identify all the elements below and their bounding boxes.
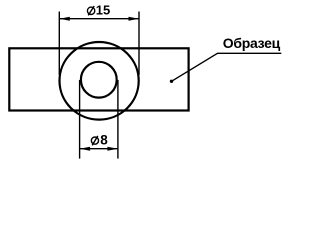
- dim text D8: [91, 132, 108, 147]
- inner circle (hole, D8): [81, 62, 117, 98]
- leader line: [172, 53, 282, 81]
- extension line left (D8): [79, 80, 81, 159]
- extension line right (D8): [117, 80, 119, 159]
- leader dot: [170, 80, 173, 83]
- outer circle (boss, D15): [60, 42, 139, 120]
- specimen body rectangle: [9, 48, 188, 110]
- arrowhead D8 left: [80, 147, 91, 151]
- svg-text:Образец: Образец: [223, 35, 281, 51]
- extension line right (D15): [138, 12, 140, 76]
- svg-text:8: 8: [100, 132, 108, 147]
- arrowhead D15 left: [59, 17, 70, 21]
- dim text D15: [87, 2, 110, 17]
- svg-text:15: 15: [96, 2, 110, 17]
- dimension line D8: [80, 148, 118, 150]
- arrowhead D15 right: [129, 17, 140, 21]
- dimension line D15: [59, 18, 139, 20]
- extension line left (D15): [58, 12, 60, 76]
- arrowhead D8 right: [107, 147, 118, 151]
